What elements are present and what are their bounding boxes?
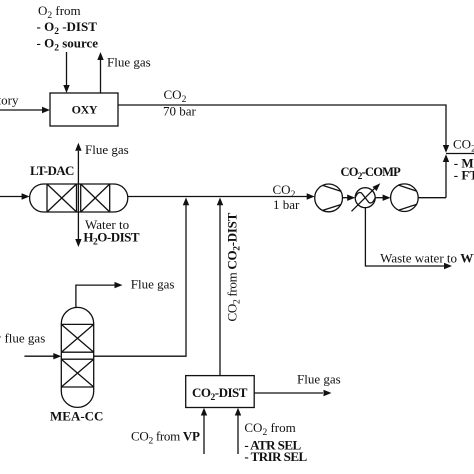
svg-text:70 bar: 70 bar <box>163 104 197 119</box>
svg-text:CO2-COMP: CO2-COMP <box>341 165 402 182</box>
svg-text:1 bar: 1 bar <box>273 197 300 212</box>
svg-text:Flue gas: Flue gas <box>85 142 129 157</box>
svg-text:CO2 from VP: CO2 from VP <box>131 429 200 447</box>
svg-text:CO2: CO2 <box>164 87 187 105</box>
svg-text:tory: tory <box>0 93 19 108</box>
svg-text:Waste water to WWT: Waste water to WWT <box>380 251 474 266</box>
svg-text:CO2 to: CO2 to <box>453 137 474 155</box>
svg-text:OXY: OXY <box>72 103 98 117</box>
svg-text:CO2-DIST: CO2-DIST <box>192 385 248 403</box>
svg-text:H2O-DIST: H2O-DIST <box>83 230 139 248</box>
svg-text:Dry flue gas: Dry flue gas <box>0 331 45 346</box>
svg-text:- O2 source: - O2 source <box>37 36 99 54</box>
svg-text:CO2 from CO2-DIST: CO2 from CO2-DIST <box>225 212 243 321</box>
svg-text:- TRIR SEL: - TRIR SEL <box>244 449 307 464</box>
svg-text:MEA-CC: MEA-CC <box>50 409 103 424</box>
svg-text:- FT: - FT <box>454 168 474 183</box>
svg-text:Flue gas: Flue gas <box>131 277 175 292</box>
svg-text:- O2 -DIST: - O2 -DIST <box>37 19 98 37</box>
svg-text:Flue gas: Flue gas <box>297 372 341 387</box>
svg-text:Flue gas: Flue gas <box>107 55 151 70</box>
svg-text:CO2 from: CO2 from <box>244 420 295 438</box>
svg-text:LT-DAC: LT-DAC <box>30 163 74 178</box>
